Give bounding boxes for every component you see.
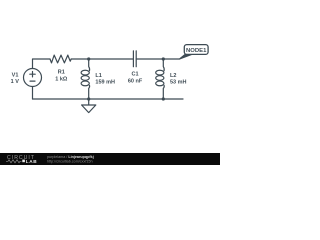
svg-text:L2: L2 [170, 73, 176, 79]
labels [11, 70, 187, 86]
svg-text:60 nF: 60 nF [128, 79, 143, 85]
wire C1 to flag [136, 58, 179, 60]
node top L2 [162, 57, 165, 60]
inductor L2 [162, 59, 165, 71]
wire R1 to C1 [71, 58, 133, 60]
inductor L1 [88, 59, 91, 71]
svg-text:C1: C1 [131, 72, 138, 78]
wire bottom rail [33, 98, 184, 100]
svg-text:NODE1: NODE1 [186, 48, 207, 54]
flag NODE1 [179, 45, 208, 60]
footer logo zigzag [6, 160, 22, 163]
wire V1 bottom [32, 87, 34, 100]
svg-text:R1: R1 [58, 70, 65, 76]
svg-text:1 V: 1 V [11, 79, 20, 85]
voltage source V1 [24, 69, 42, 87]
capacitor C1 [133, 51, 136, 67]
svg-text:V1: V1 [12, 73, 19, 79]
wire V1 top to R1 [33, 59, 51, 69]
footer bar [0, 153, 220, 165]
node bottom L2 [162, 97, 165, 100]
resistor R1 [50, 55, 71, 63]
svg-text:http://circuitlab.com/cxxf15h: http://circuitlab.com/cxxf15h [47, 160, 93, 164]
node junction dots [87, 57, 165, 100]
ground [82, 99, 96, 113]
svg-text:L1: L1 [95, 73, 101, 79]
svg-text:53 mH: 53 mH [170, 80, 187, 86]
svg-text:LAB: LAB [26, 159, 37, 164]
node bottom ground [87, 97, 90, 100]
svg-text:1 kΩ: 1 kΩ [55, 77, 68, 83]
svg-text:purplelama / Linjearupqpfkj: purplelama / Linjearupqpfkj [47, 155, 94, 159]
svg-text:159 mH: 159 mH [95, 80, 115, 86]
node top L1 [87, 57, 90, 60]
